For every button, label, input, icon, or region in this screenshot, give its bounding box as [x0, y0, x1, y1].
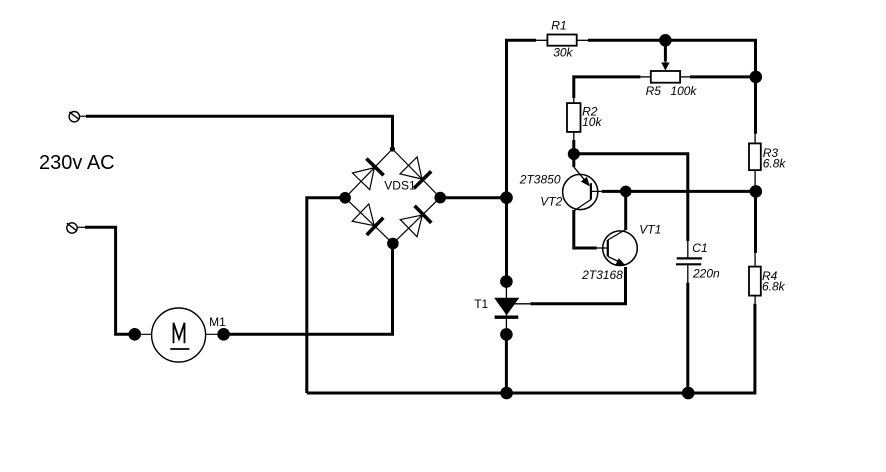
wire R2 bottom to junction	[572, 140, 575, 154]
svg-text:220n: 220n	[692, 266, 720, 280]
motor M1	[128, 308, 230, 362]
node bridge top	[390, 146, 395, 151]
svg-text:VT2: VT2	[540, 194, 562, 208]
svg-text:6.8k: 6.8k	[762, 280, 786, 294]
svg-text:6.8k: 6.8k	[763, 157, 787, 171]
svg-text:10k: 10k	[582, 115, 602, 129]
diode D1 (left-top) of bridge	[353, 159, 384, 190]
terminal X2 (bottom AC input)	[67, 223, 85, 233]
svg-text:VT1: VT1	[639, 223, 661, 237]
node R1 wire / wiper junction	[659, 34, 672, 47]
wire thyristor cathode to bottom rail	[505, 334, 508, 393]
node VT2 base / VT1 collector junction	[620, 186, 632, 198]
svg-text:T1: T1	[474, 297, 488, 311]
transistor VT2	[563, 155, 602, 211]
svg-text:R5: R5	[646, 84, 662, 98]
wire junction to C1 top	[574, 154, 688, 241]
resistor R3	[749, 77, 761, 188]
wire motor right to bridge bottom	[224, 244, 393, 335]
resistor R4	[749, 191, 761, 303]
node bridge right	[434, 192, 446, 204]
wire R1 right to top-right corner down to pot right	[588, 40, 756, 77]
wire left rail (R1 top corner down to thyristor)	[507, 40, 537, 281]
capacitor C1	[676, 241, 702, 283]
diode D3 (left-bottom) of bridge	[352, 204, 383, 235]
svg-text:2T3850: 2T3850	[519, 173, 561, 187]
wire pot right to R3 top junction	[690, 75, 756, 78]
diode D2 (top-right) of bridge	[400, 157, 431, 188]
svg-text:R1: R1	[551, 19, 566, 33]
node C1 / bottom rail junction	[682, 387, 695, 400]
node bridge left	[339, 192, 351, 204]
node bridge bottom	[387, 238, 399, 250]
node bottom rail / thyristor junction	[500, 387, 513, 400]
svg-text:2T3168: 2T3168	[581, 268, 623, 282]
node R3 bottom / R4 top junction	[750, 185, 763, 198]
thyristor T1	[495, 275, 531, 341]
node pot right / R1 wire junction	[750, 71, 763, 84]
wire bridge left node to bottom rail	[307, 198, 345, 393]
diode D4 (bottom-right) of bridge	[400, 206, 431, 237]
wire C1 bottom to bottom rail	[686, 283, 689, 393]
wire bottom rail	[307, 304, 755, 393]
node R2 bottom junction	[568, 148, 580, 160]
node rail / bridge right junction	[500, 191, 513, 204]
bridge rectifier VDS1 diamond	[345, 149, 440, 244]
potentiometer R5 body	[640, 71, 690, 83]
terminal X1 (top AC input)	[69, 112, 87, 122]
svg-text:C1: C1	[692, 241, 707, 255]
wire bridge right node to left rail	[440, 196, 506, 199]
svg-text:VDS1: VDS1	[384, 178, 416, 192]
wire VT2 base to R3/R4 junction	[602, 190, 756, 193]
resistor R2	[567, 98, 581, 140]
svg-text:230v AC: 230v AC	[39, 152, 115, 174]
wire terminal X2 to motor left	[85, 227, 135, 334]
wire pot left down to R2	[574, 77, 641, 98]
transistor VT1	[597, 191, 638, 265]
wire terminal X1 to bridge top	[86, 116, 393, 148]
potentiometer R5 wiper arrow	[661, 42, 669, 71]
svg-text:100k: 100k	[670, 84, 697, 98]
wire VT2 emitter down to VT1 base	[574, 210, 597, 248]
svg-text:M1: M1	[209, 315, 226, 329]
wire thyristor gate to VT1 emitter	[530, 267, 625, 304]
resistor R1	[536, 35, 588, 46]
svg-text:30k: 30k	[553, 46, 573, 60]
